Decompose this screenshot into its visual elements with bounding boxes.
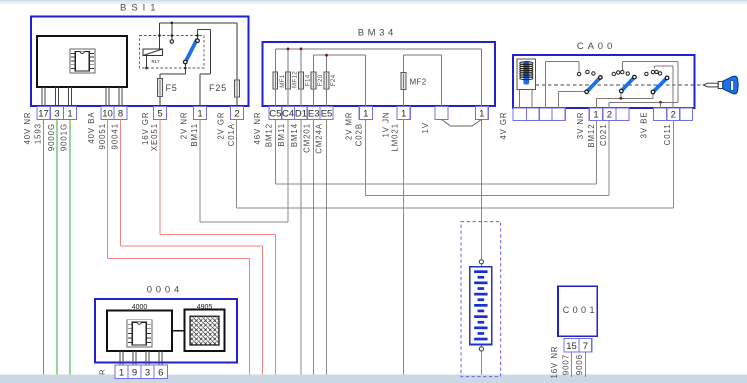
- BM34 supply rail 2: [314, 54, 366, 56]
- wire top rail in BSI1: [160, 22, 238, 24]
- wire CM24A: [326, 120, 328, 378]
- svg-text:7: 7: [583, 341, 588, 352]
- svg-text:3V NR: 3V NR: [576, 112, 585, 140]
- svg-text:1: 1: [363, 109, 368, 120]
- label 1593: [33, 123, 42, 144]
- mechanical link dashed line to key: [536, 84, 705, 86]
- BM34 pin 1: [359, 107, 372, 120]
- wire switch2 top contact to pin 2 net: [609, 62, 678, 109]
- 0004 pin 6: [154, 365, 168, 379]
- switch3 position contacts: [645, 70, 662, 75]
- ignition switch blade 3: [651, 76, 669, 94]
- BSI1 pin 5: [154, 107, 167, 120]
- fuse MF2: [401, 72, 406, 89]
- junction rail1 / D1: [300, 48, 303, 51]
- wire 90041: [121, 120, 263, 378]
- svg-text:2: 2: [234, 109, 239, 120]
- junction blank pin stub: [659, 101, 662, 104]
- CA00 pin blank: [616, 108, 629, 121]
- junction relay coil bottom: [145, 67, 148, 70]
- svg-text:F5: F5: [165, 83, 177, 93]
- wire BM34 fuse F24 drop to E5: [326, 55, 328, 106]
- label 2V NR: [179, 112, 188, 140]
- switch1 position contacts: [577, 70, 595, 76]
- label 2V MR: [344, 112, 353, 141]
- fuse MF12: [286, 72, 291, 89]
- fuse F5: [158, 79, 163, 97]
- 0004 pin 1: [115, 365, 128, 379]
- label BM12: [264, 123, 273, 147]
- svg-text:C02B: C02B: [354, 123, 363, 146]
- svg-text:8: 8: [118, 109, 123, 120]
- 0004 pin lead x=147.5: [146, 351, 149, 365]
- svg-text:C5: C5: [269, 109, 281, 120]
- relay switched contact riser: [197, 29, 199, 39]
- CA00 pin blank: [539, 108, 552, 121]
- junction coil feed on dashed edge: [158, 34, 161, 37]
- svg-text:F20: F20: [317, 74, 324, 86]
- svg-text:40V NR: 40V NR: [23, 112, 32, 145]
- label C011: [663, 124, 672, 146]
- BSI1 pin 17: [37, 107, 50, 120]
- label 9007: [561, 354, 570, 375]
- module 4905 hatched element: [190, 316, 219, 345]
- CA00 pin blank: [680, 108, 693, 121]
- wire relay common to fuse F5: [160, 64, 185, 107]
- ignition switch blade 1: [585, 76, 602, 94]
- BM34 pin 1: [475, 107, 488, 120]
- BSI1 module pin lead x=107.5: [106, 87, 109, 107]
- svg-text:CM24A: CM24A: [315, 123, 324, 154]
- svg-text:5: 5: [157, 109, 162, 120]
- svg-text:9000G: 9000G: [47, 123, 56, 151]
- wire LM021 (1V JN): [403, 120, 405, 378]
- BM34 pin E5: [320, 107, 333, 120]
- C001 pin 7: [579, 339, 592, 353]
- svg-text:17: 17: [38, 109, 49, 120]
- svg-text:RL7: RL7: [151, 59, 160, 64]
- diagnostic connector dashed outline: [461, 222, 501, 377]
- BM34 pin blank: [435, 107, 448, 120]
- svg-text:2V GR: 2V GR: [216, 112, 225, 140]
- label 16V GR: [141, 112, 150, 145]
- svg-text:CA00: CA00: [577, 41, 616, 52]
- svg-text:BM12: BM12: [264, 123, 273, 147]
- 0004 pin lead x=160.5: [159, 351, 162, 365]
- svg-text:9001G: 9001G: [59, 123, 68, 151]
- wire BM14: [300, 120, 302, 378]
- svg-text:3V BE: 3V BE: [639, 112, 648, 139]
- wire BM34 fuse MF1 drop to C5: [274, 49, 276, 107]
- fuse MF1: [273, 72, 278, 89]
- 0004 pin lead x=121.5: [120, 351, 123, 365]
- svg-text:F14: F14: [305, 74, 312, 86]
- wire switch2/3 common to pin 1: [597, 94, 653, 108]
- ignition key: [703, 76, 738, 94]
- svg-text:1: 1: [197, 109, 202, 120]
- BSI1 pin 1: [64, 107, 77, 120]
- svg-text:C021: C021: [599, 124, 608, 146]
- CA00 pin blank: [654, 108, 667, 121]
- wire 1593 (40V NR): [43, 120, 45, 378]
- wire 9000G: [56, 120, 58, 378]
- wire relay coil to dashed edge: [146, 56, 148, 69]
- label BM11: [277, 123, 286, 147]
- svg-text:BM34: BM34: [358, 28, 397, 39]
- wire C02B / C021 bus: [366, 120, 610, 196]
- wire BM11 between BSI1 pin1 and BM34 C4: [200, 120, 288, 223]
- C001 connector box: [558, 286, 597, 336]
- svg-text:BM12: BM12: [587, 124, 596, 148]
- connector top terminal: [479, 260, 483, 264]
- svg-text:40V BA: 40V BA: [87, 112, 96, 144]
- relay switched contact: [196, 39, 200, 43]
- svg-text:F25: F25: [209, 83, 227, 93]
- BSI1 block outline: [31, 17, 249, 107]
- bridge link below BM34 pins: [442, 120, 482, 127]
- fuse MF1 label: [279, 74, 286, 88]
- svg-text:2: 2: [607, 110, 612, 121]
- fuse F25: [235, 80, 240, 97]
- wire switch1 common: [559, 92, 585, 108]
- svg-text:3: 3: [145, 368, 150, 379]
- CA00 pin 2: [603, 108, 616, 121]
- svg-text:16V NR: 16V NR: [550, 346, 559, 379]
- BSI1 module pin lead x=57: [56, 87, 59, 107]
- svg-text:1: 1: [119, 368, 124, 379]
- junction contact riser on top rail: [171, 22, 174, 25]
- svg-text:2: 2: [671, 110, 676, 121]
- relay RL7 dashed enclosure: [140, 36, 205, 69]
- wire relay coil feed from top rail: [159, 23, 161, 49]
- label 40V NR: [23, 112, 32, 145]
- svg-text:MF1: MF1: [279, 74, 286, 88]
- svg-text:15: 15: [566, 341, 577, 352]
- svg-text:XE051: XE051: [150, 123, 159, 151]
- wire 9007: [571, 352, 573, 377]
- svg-text:2V MR: 2V MR: [344, 112, 353, 141]
- wire MF2 branch: [404, 55, 442, 106]
- BSI1 module pin lead x=43.5: [42, 87, 45, 107]
- label CM24A: [315, 123, 324, 154]
- wire 4V GR from BM34 pin 1 through diagnostic connector: [480, 120, 482, 378]
- label 2V GR: [216, 112, 225, 140]
- svg-text:BM11: BM11: [190, 123, 199, 147]
- svg-text:1V: 1V: [421, 122, 430, 133]
- wire 9001G: [69, 120, 71, 378]
- CA00 pin 1: [589, 108, 602, 121]
- label C01A: [227, 123, 236, 146]
- label 90041: [110, 123, 119, 149]
- fuse F24 label: [330, 74, 337, 86]
- svg-text:C4: C4: [282, 109, 294, 120]
- svg-text:10: 10: [102, 109, 113, 120]
- label C021: [599, 124, 608, 146]
- BSI1 internal module box: [37, 36, 127, 87]
- in-line component (blue ladder): [470, 267, 492, 345]
- BM34 pin D1: [295, 107, 308, 120]
- label GR (cut off): [98, 369, 107, 375]
- label 1V: [421, 122, 430, 133]
- svg-text:4V GR: 4V GR: [499, 112, 508, 140]
- BM34 pin E3: [307, 107, 320, 120]
- svg-text:90041: 90041: [110, 123, 119, 149]
- transponder antenna coil: [520, 62, 533, 80]
- wire antenna pin b: [531, 90, 533, 108]
- label 3V BE: [639, 112, 648, 139]
- svg-text:C01A: C01A: [227, 123, 236, 146]
- CA00 pin blank: [513, 108, 526, 121]
- connector bottom terminal: [479, 347, 483, 351]
- svg-text:D1: D1: [295, 109, 307, 120]
- relay blade (blue): [184, 39, 197, 64]
- BSI1 pin 3: [51, 107, 64, 120]
- svg-text:1: 1: [401, 109, 406, 120]
- svg-text:1: 1: [593, 110, 598, 121]
- relay RL7 coil: [143, 49, 163, 56]
- fuse F14: [299, 72, 304, 89]
- 0004 pin 9: [128, 365, 141, 379]
- label C02B: [354, 123, 363, 146]
- wire BM34 fuse F14 drop to D1: [300, 49, 302, 107]
- wire XE051 (16V GR): [160, 120, 275, 378]
- ignition switch blade 2: [620, 75, 637, 93]
- label 40V BA: [87, 112, 96, 144]
- module 4905 box: [185, 310, 225, 351]
- BSI1 pin 8: [114, 107, 127, 120]
- wire relay output jog to pin 1: [198, 29, 211, 106]
- label CM201: [302, 123, 311, 153]
- svg-text:CM201: CM201: [302, 123, 311, 153]
- fuse MF12 label: [292, 71, 299, 88]
- label BM12: [587, 124, 596, 148]
- transponder antenna core (blue): [523, 61, 529, 85]
- svg-text:16V GR: 16V GR: [141, 112, 150, 145]
- junction switched riser on dashed edge: [196, 34, 199, 37]
- svg-text:BM14: BM14: [290, 123, 299, 147]
- BM34 supply rail 1: [275, 48, 481, 50]
- label 9000G: [47, 123, 56, 151]
- svg-text:46V NR: 46V NR: [253, 112, 262, 145]
- 0004 pin lead x=134.5: [133, 351, 136, 365]
- wire 90051 (40V BA): [108, 120, 250, 378]
- label BM11: [190, 123, 199, 147]
- label LM021: [391, 123, 400, 152]
- wire rail1 drop to pin 1 (4V GR): [480, 49, 482, 107]
- BSI1 pin 2: [231, 107, 244, 120]
- module 4000 box: [107, 311, 172, 351]
- svg-text:1V JN: 1V JN: [381, 112, 390, 138]
- svg-text:E3: E3: [308, 109, 320, 120]
- svg-text:MF12: MF12: [292, 71, 299, 88]
- junction blade2 on common: [619, 97, 622, 100]
- label 9006: [575, 354, 584, 375]
- CA00 pin 2: [667, 108, 680, 121]
- label 3V NR: [576, 112, 585, 140]
- CA00 pin blank: [552, 108, 565, 121]
- BSI1 IC U1: [70, 49, 95, 73]
- wire switch3 contact to pin 2 C011: [654, 66, 673, 108]
- svg-text:C011: C011: [663, 124, 672, 146]
- label XE051: [150, 123, 159, 151]
- wire F25 feed: [236, 23, 238, 107]
- svg-text:BM11: BM11: [277, 123, 286, 147]
- wire antenna pin a: [518, 90, 520, 108]
- wire BM12 bus BM34 C5 to CA00 pin1: [275, 120, 596, 185]
- svg-text:9006: 9006: [575, 354, 584, 375]
- svg-text:2V NR: 2V NR: [179, 112, 188, 140]
- BSI1 pin 1: [194, 107, 207, 120]
- label BM14: [290, 123, 299, 147]
- svg-text:LM021: LM021: [391, 123, 400, 152]
- svg-text:C001: C001: [563, 305, 598, 315]
- wire blade2 drop: [620, 93, 622, 99]
- svg-text:1: 1: [479, 109, 484, 120]
- svg-text:90051: 90051: [98, 123, 107, 149]
- BM34 pin C5: [269, 107, 282, 120]
- svg-text:9007: 9007: [561, 354, 570, 375]
- bottom window strip: [0, 375, 747, 383]
- svg-text:1: 1: [67, 109, 72, 120]
- svg-text:3: 3: [54, 109, 59, 120]
- wire 9006: [584, 352, 586, 377]
- relay blade hinge: [184, 60, 188, 64]
- C001 pin 15: [564, 339, 579, 353]
- fuse F20: [311, 72, 316, 89]
- wire CM201: [313, 120, 315, 378]
- BSI1 pin 10: [101, 107, 114, 120]
- BSI1 module pin lead x=120.5: [119, 87, 122, 107]
- wire relay fixed contact to top rail: [171, 23, 173, 40]
- svg-text:R: R: [98, 369, 107, 375]
- wire link 4000 to 4905: [172, 330, 185, 332]
- top window edge line: [0, 0, 747, 4]
- svg-text:6: 6: [158, 368, 163, 379]
- svg-text:F24: F24: [330, 74, 337, 86]
- switch2 position contacts: [612, 70, 629, 75]
- wire blank pin stub: [660, 102, 662, 108]
- CA00 block outline: [513, 55, 695, 108]
- relay fixed contact: [170, 40, 173, 43]
- CA00 pin blank: [526, 108, 539, 121]
- BM34 pin C4: [282, 107, 295, 120]
- BM34 block outline: [263, 42, 496, 106]
- wire BM34 fuse F20 drop to E3: [313, 55, 315, 106]
- label 46V NR: [253, 112, 262, 145]
- 0004 block outline: [95, 299, 237, 363]
- junction blade wire on dashed edge: [184, 67, 187, 70]
- BM34 pin 1: [397, 107, 410, 120]
- label 9001G: [59, 123, 68, 151]
- svg-text:0004: 0004: [147, 285, 183, 296]
- svg-text:9: 9: [132, 368, 137, 379]
- svg-text:MF2: MF2: [410, 78, 427, 87]
- junction rail2 / E5: [325, 54, 328, 57]
- fuse F24: [324, 72, 329, 89]
- svg-text:E5: E5: [321, 109, 333, 120]
- label 90051: [98, 123, 107, 149]
- wire C01A / C011 bus: [237, 120, 674, 209]
- wire switch1 feed: [546, 61, 579, 108]
- fuse F20 label: [317, 74, 324, 86]
- label 4V GR: [499, 112, 508, 140]
- junction rail1 / C4: [287, 48, 290, 51]
- label 16V NR: [550, 346, 559, 379]
- wire BM34 fuse MF12 drop to C4: [287, 49, 289, 107]
- 0004 pin 3: [141, 365, 154, 379]
- 0004 IC U2: [127, 320, 152, 347]
- wire rail2 drop to pin 1 C02B: [365, 55, 367, 106]
- svg-text:BSI1: BSI1: [120, 3, 161, 14]
- label 1V JN: [381, 112, 390, 138]
- svg-text:1593: 1593: [33, 123, 42, 144]
- transponder antenna box: [517, 59, 536, 90]
- junction contact riser on dashed edge: [171, 34, 174, 37]
- fuse F14 label: [305, 74, 312, 86]
- BSI1 module pin lead x=70: [69, 87, 72, 107]
